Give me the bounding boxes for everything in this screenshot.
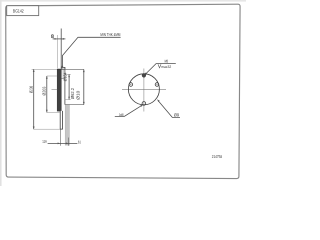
- svg-text:3xM8: 3xM8: [119, 113, 124, 117]
- hub bore outline below ring: [60, 111, 62, 129]
- centerline horizontal: [122, 88, 166, 90]
- svg-text:61: 61: [78, 140, 81, 145]
- friction ring section (dark band): [57, 69, 61, 111]
- drawing sheet border: [6, 4, 240, 178]
- hat interior shoulder: [61, 78, 64, 80]
- centerline vertical: [143, 69, 145, 112]
- svg-text:Ø62.2: Ø62.2: [70, 87, 75, 99]
- MIN THK note leader: [62, 32, 121, 69]
- code box top-left: [7, 6, 39, 16]
- svg-text:Ø203: Ø203: [41, 86, 46, 95]
- svg-text:8: 8: [51, 34, 54, 40]
- ring bottom edge: [57, 110, 61, 112]
- svg-text:M8: M8: [165, 59, 169, 64]
- D2 diameter dimension: [41, 76, 60, 112]
- svg-text:Ø104: Ø104: [62, 72, 67, 82]
- thickness dim: left extension line: [56, 35, 58, 68]
- hat interior wall: [62, 69, 64, 78]
- bolt hole bottom: [142, 102, 146, 106]
- shaft (phantom gray strip): [65, 105, 69, 146]
- svg-text:max32: max32: [161, 65, 171, 69]
- hat bottom step / D5 lower extension: [65, 104, 84, 106]
- D1 diameter dimension (outer): [29, 69, 60, 129]
- svg-text:Ø238: Ø238: [29, 85, 34, 93]
- hub face top step: [61, 67, 65, 69]
- shaft edges: [64, 105, 66, 146]
- svg-text:Ø9: Ø9: [174, 113, 180, 118]
- svg-text:Ø10: Ø10: [75, 90, 80, 100]
- scan edge top: [0, 0, 246, 2]
- thickness dim: right extension line: [60, 29, 62, 69]
- svg-text:119: 119: [42, 139, 47, 144]
- bolt hole top: [142, 74, 146, 78]
- M8 label with leader and finish symbol: [144, 59, 176, 77]
- bolt hole right: [155, 83, 159, 87]
- diameter label with leader (circle): [157, 99, 180, 117]
- centerline left of ring: [52, 88, 58, 90]
- disc top edge: [57, 68, 65, 70]
- D5 dimension (hat): [65, 69, 85, 104]
- svg-text:BG142: BG142: [13, 9, 24, 14]
- svg-text:214758: 214758: [212, 154, 223, 159]
- scan edge left: [0, 0, 2, 186]
- svg-text:MIN THK 4MM: MIN THK 4MM: [100, 32, 120, 37]
- thickness dim line with value 8: [51, 34, 65, 40]
- hat right wall: [64, 67, 66, 104]
- bolt hole left: [129, 83, 133, 87]
- hub circle: [128, 74, 159, 105]
- 3xM8 label with leader: [115, 105, 143, 117]
- D3 diameter dimension: [65, 74, 75, 99]
- bottom width dimension: [42, 129, 81, 145]
